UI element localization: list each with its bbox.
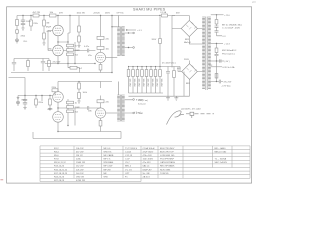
resistor R8	[67, 44, 74, 47]
svg-text:+ C10: + C10	[224, 15, 230, 17]
input jack J1	[16, 39, 19, 42]
capacitor C5 bias	[12, 63, 16, 70]
resistor R24	[35, 99, 38, 105]
diode marks BR1	[186, 22, 196, 29]
svg-text:1M: 1M	[46, 22, 49, 24]
fuse F1	[162, 14, 168, 17]
svg-text:470u 16V: 470u 16V	[143, 155, 153, 157]
resistor R15 bias	[48, 61, 51, 67]
svg-text:NOS 1985: NOS 1985	[160, 169, 171, 171]
ground at bank 2	[174, 96, 178, 100]
wire OPT2 secondary taps	[125, 100, 133, 113]
svg-text:150R 1W: 150R 1W	[76, 162, 86, 164]
resistor R17	[52, 89, 58, 92]
svg-text:10k: 10k	[50, 12, 54, 14]
svg-text:R7,8: R7,8	[54, 159, 59, 161]
wire V2 plate to OPT	[106, 57, 118, 59]
svg-text:320V: 320V	[152, 39, 157, 41]
svg-text:6N2P: 6N2P	[46, 27, 52, 29]
svg-text:47u 450V ( 6x ): 47u 450V ( 6x )	[162, 62, 176, 64]
ground x23	[21, 28, 24, 30]
wire lower feed	[9, 78, 26, 96]
svg-text:2k2: 2k2	[75, 111, 79, 113]
svg-text:4k7 2W: 4k7 2W	[33, 12, 41, 14]
input jack J2	[17, 101, 20, 104]
wire T1 tap group2 top	[211, 43, 223, 45]
wire x79 chain	[78, 16, 80, 46]
svg-text:100u 450: 100u 450	[137, 79, 139, 87]
svg-text:PS ( heaters ): PS ( heaters )	[222, 53, 235, 56]
wire mains to bridge	[172, 16, 189, 68]
resistor R41 dropper	[215, 48, 218, 53]
svg-text:22k: 22k	[106, 38, 110, 40]
capacitor C24 electrolytic	[145, 70, 148, 77]
wire V4 plate to OPT2	[106, 112, 118, 114]
resistor R25	[49, 99, 52, 105]
svg-text:R5,6: R5,6	[54, 155, 59, 157]
svg-text:100u 450: 100u 450	[146, 79, 148, 87]
svg-text:1k: 1k	[75, 46, 78, 48]
terminal upper speaker +	[133, 32, 135, 34]
wire grid bus lower	[18, 96, 53, 102]
diode marks BR2	[187, 65, 197, 72]
capacitor C3 coupling	[87, 49, 95, 53]
svg-text:( 0V ): ( 0V )	[225, 61, 230, 63]
svg-text:100u 450: 100u 450	[160, 79, 162, 87]
triode V3b lower SRPP lower ch	[53, 112, 64, 123]
svg-text:6A4 x4: 6A4 x4	[143, 165, 151, 168]
svg-text:150R: 150R	[75, 107, 80, 109]
wire stage2 lower column	[95, 82, 100, 109]
node dot group2	[216, 43, 217, 44]
wire mid bias row	[14, 59, 49, 72]
wire x25 drop lower	[24, 96, 26, 108]
svg-text:V2a: V2a	[88, 55, 93, 57]
svg-text:TOROID: TOROID	[160, 173, 169, 175]
svg-text:100u 450: 100u 450	[151, 79, 153, 87]
capacitor C10a	[215, 26, 219, 27]
svg-text:R15,16,21,22: R15,16,21,22	[54, 169, 68, 171]
svg-text:35V: 35V	[177, 68, 181, 70]
resistor R27 divider	[78, 36, 81, 42]
ground x79	[77, 46, 80, 48]
svg-text:2k2 2W: 2k2 2W	[76, 166, 84, 168]
resistor R6	[43, 20, 46, 26]
svg-text:R13,14,20: R13,14,20	[54, 166, 65, 168]
resistor R22 cathode lower	[99, 121, 102, 127]
node dot y63	[94, 63, 95, 64]
svg-text:MF CARB: MF CARB	[104, 154, 114, 157]
svg-text:BR -- 6A40: BR -- 6A40	[215, 147, 227, 150]
svg-text:add 100R + 47n zobel: add 100R + 47n zobel	[181, 108, 201, 110]
svg-text:V1..V4: V1..V4	[125, 169, 132, 171]
wire x23 drop	[22, 16, 24, 29]
wire x44 chain	[44, 16, 53, 51]
wire channel bottom return	[33, 132, 121, 139]
svg-text:2k2: 2k2	[75, 54, 79, 56]
transformer T1 core	[206, 17, 207, 91]
wire x36 drop lower	[35, 96, 37, 109]
wire R34 leads	[68, 64, 80, 73]
svg-text:ELECTR TOP: ELECTR TOP	[160, 151, 174, 153]
svg-text:MF 1%: MF 1%	[104, 159, 111, 161]
svg-text:1R0 5W: 1R0 5W	[76, 177, 85, 179]
node dot group2b	[216, 60, 217, 61]
svg-text:MF 0.6W: MF 0.6W	[104, 166, 114, 168]
wire V4 cathode	[58, 118, 121, 138]
border frame	[7, 7, 252, 183]
wire x31 drop	[30, 16, 32, 32]
svg-text:R3,4: R3,4	[54, 151, 59, 153]
svg-text:MELLX 7A2: MELLX 7A2	[215, 150, 227, 153]
resistor R40 dropper	[215, 20, 218, 25]
node junction dots on bus	[22, 15, 160, 16]
svg-text:5k : 8R: 5k : 8R	[143, 173, 150, 175]
transformer OPT2 primary winding	[117, 82, 120, 122]
svg-text:47u 63V: 47u 63V	[143, 162, 152, 164]
resistor R20	[67, 110, 74, 113]
resistor R28 divider lower	[78, 83, 81, 89]
svg-text:4k7 2W: 4k7 2W	[76, 151, 84, 153]
svg-text:( 2 ea ): ( 2 ea )	[135, 112, 142, 114]
svg-text:BR: 4x 1N5408 ( 3A ): BR: 4x 1N5408 ( 3A )	[222, 23, 242, 26]
svg-text:SHAKt MU PIPES: SHAKt MU PIPES	[133, 7, 166, 11]
red registration tick left edge	[0, 179, 3, 180]
resistor R10	[67, 53, 74, 56]
wire mu node lower	[58, 99, 87, 126]
transformer T1 primary winding	[208, 17, 211, 88]
svg-text:C5,7: C5,7	[125, 162, 130, 164]
svg-text:IN L: IN L	[24, 41, 29, 43]
capacitor C1	[21, 20, 25, 21]
terminal lower speaker -	[133, 112, 135, 114]
triode V1b lower SRPP	[53, 45, 64, 56]
resistor R30 bleeder	[173, 71, 176, 78]
wire group2 mid	[211, 60, 224, 62]
svg-text:MF 0.6: MF 0.6	[104, 148, 112, 150]
node dot group1	[216, 14, 217, 15]
svg-text:MF 2W: MF 2W	[104, 169, 112, 171]
svg-text:0.47u: 0.47u	[84, 46, 90, 48]
filter cap bank top bus	[129, 17, 181, 67]
ground x44	[42, 43, 45, 45]
svg-text:220k: 220k	[52, 87, 57, 89]
capacitor C2	[21, 24, 25, 25]
capacitor C23 electrolytic	[141, 70, 144, 77]
svg-text:+B 320: +B 320	[93, 13, 100, 15]
wire group1 ladder	[217, 15, 223, 36]
svg-text:100u 450: 100u 450	[142, 79, 144, 87]
resistor R12 stage2	[97, 46, 104, 49]
svg-text:p.1: p.1	[253, 1, 257, 3]
svg-text:OPT 5k: OPT 5k	[117, 12, 125, 14]
svg-text:1k0 1W: 1k0 1W	[76, 173, 84, 175]
svg-text:220k: 220k	[38, 102, 43, 104]
capacitor C13a	[215, 54, 219, 55]
svg-text:POLYPR MKP: POLYPR MKP	[160, 159, 175, 161]
capacitor C14	[220, 59, 221, 63]
wire R17 leads	[55, 82, 112, 96]
svg-text:6N2P-EV: 6N2P-EV	[143, 169, 153, 171]
svg-text:R1,2: R1,2	[54, 148, 59, 150]
transformer OPT2 secondary winding	[122, 95, 125, 121]
node dot x112	[111, 26, 129, 73]
wire BR2 leads	[178, 61, 202, 97]
resistor R1	[16, 20, 19, 26]
resistor R2 grid stopper	[16, 30, 19, 33]
node dot group3	[216, 81, 217, 82]
svg-text:0 V: 0 V	[223, 36, 227, 38]
wire x79 chain lower	[78, 82, 80, 102]
ground x25 lower	[23, 107, 26, 109]
svg-text:V2b: V2b	[88, 111, 93, 113]
handwritten signature scribble	[167, 111, 215, 125]
resistor R34 tail	[70, 66, 77, 69]
triode V1a upper SRPP	[53, 25, 64, 36]
node dots V3	[57, 107, 68, 132]
transformer OPT1 primary winding	[117, 16, 120, 56]
capacitor C27 electrolytic	[159, 70, 162, 77]
svg-text:100u 450: 100u 450	[155, 79, 157, 87]
svg-text:F1 2A: F1 2A	[161, 11, 167, 14]
svg-text:47uF 350V: 47uF 350V	[143, 151, 154, 153]
bridge rectifier BR1	[181, 20, 197, 36]
svg-text:22k 2W: 22k 2W	[76, 169, 84, 171]
wire group3	[211, 81, 223, 83]
filter cap bank bottom bus	[129, 93, 190, 96]
capacitor C26 electrolytic	[154, 70, 157, 77]
svg-text:CATH BYPASS: CATH BYPASS	[160, 161, 176, 164]
svg-text:220k: 220k	[33, 23, 38, 25]
terminal lower speaker +	[133, 99, 135, 101]
svg-text:- 0.7V bias: - 0.7V bias	[221, 86, 231, 88]
node dots lower grid	[24, 95, 42, 96]
resistor R7	[43, 33, 46, 39]
resistor R18	[67, 101, 74, 104]
wire B+ top bus	[17, 15, 175, 17]
svg-text:BR1,2: BR1,2	[125, 166, 132, 168]
svg-text:OPT: OPT	[125, 173, 130, 175]
ground x79 lower	[77, 101, 80, 103]
capacitor C21 electrolytic	[132, 70, 135, 77]
node dots lower drops	[35, 95, 50, 96]
transformer OPT1 core	[120, 26, 123, 55]
resistor R29 divider lower	[78, 93, 81, 99]
svg-text:R9,10,11,12: R9,10,11,12	[54, 162, 67, 164]
svg-text:63V: 63V	[176, 13, 180, 15]
svg-text:WW 5%: WW 5%	[104, 151, 112, 153]
ground at bank	[166, 96, 170, 100]
wire V1 anode/cathode column	[57, 16, 59, 64]
triode V2 output upper	[95, 52, 105, 62]
svg-text:10k 1W: 10k 1W	[76, 148, 84, 150]
svg-text:C1,F: C1,F	[125, 159, 130, 161]
transformer OPT2 core	[120, 95, 123, 122]
resistor R19	[67, 106, 74, 109]
svg-text:100k 1W: 100k 1W	[77, 12, 85, 14]
svg-text:150R: 150R	[75, 50, 80, 52]
wire heater run	[127, 29, 137, 31]
resistor R4 on bus	[50, 14, 57, 17]
capacitor C6 bias	[41, 62, 45, 69]
ground return y63	[45, 63, 95, 65]
capacitor C28	[166, 67, 170, 97]
svg-text:V1b: V1b	[48, 49, 53, 51]
svg-text:100u 450: 100u 450	[133, 79, 135, 87]
svg-text:47u 25V: 47u 25V	[224, 82, 232, 84]
svg-text:+ C13: + C13	[224, 44, 230, 46]
resistor R26 divider	[78, 26, 81, 32]
resistor R11 stage2	[97, 36, 104, 39]
svg-text:6N2P: 6N2P	[48, 109, 54, 111]
resistor R9	[67, 49, 74, 52]
svg-text:C12,13: C12,13	[125, 155, 133, 157]
svg-text:+ 0.1: + 0.1	[137, 30, 143, 32]
capacitor C25 electrolytic	[150, 70, 153, 77]
transformer T1 secondary winding	[202, 17, 205, 88]
svg-text:100n 630V: 100n 630V	[143, 159, 154, 161]
svg-text:C: 2x 100uF , 450V: C: 2x 100uF , 450V	[222, 28, 241, 30]
capacitor C4 coupling lower	[87, 106, 95, 110]
svg-text:100n: 100n	[26, 21, 31, 23]
resistor R21 stage2 lower	[97, 100, 104, 103]
terminal upper speaker -	[133, 47, 135, 49]
svg-text:LOW ESR 105: LOW ESR 105	[160, 155, 175, 157]
svg-text:470R 2W: 470R 2W	[76, 180, 86, 182]
capacitor C20 electrolytic	[127, 70, 130, 77]
wire mu output node	[58, 16, 87, 64]
svg-text:1M 1/2: 1M 1/2	[76, 155, 83, 157]
resistor R3 on bus	[33, 14, 39, 17]
wire OPT1 secondary taps	[125, 33, 133, 48]
resistor R14 bias	[27, 61, 30, 67]
wire J2	[17, 96, 19, 107]
svg-text:6N2 300mA DC: 6N2 300mA DC	[222, 49, 237, 52]
transformer OPT1 secondary winding	[122, 27, 125, 56]
svg-text:T1,T2,R,B,S: T1,T2,R,B,S	[125, 148, 138, 150]
capacitor C8	[23, 103, 27, 104]
parts table grid	[40, 146, 250, 182]
svg-text:22k: 22k	[106, 102, 110, 104]
resistor R42 dropper	[215, 74, 218, 79]
node dot heater	[126, 29, 127, 30]
wire stage2 column	[100, 16, 102, 53]
svg-text:ELECTR 450V: ELECTR 450V	[160, 148, 175, 150]
wire x50 drop lower	[49, 96, 51, 109]
svg-text:10k: 10k	[106, 48, 110, 50]
svg-text:230V: 230V	[184, 59, 189, 61]
svg-text:100k: 100k	[83, 92, 87, 94]
triode V3a upper SRPP lower ch	[53, 92, 64, 103]
svg-text:2A SLO: 2A SLO	[143, 176, 151, 179]
capacitor C22 electrolytic	[136, 70, 139, 77]
wire V2 cathode	[100, 63, 102, 73]
svg-text:C11,B: C11,B	[125, 151, 131, 153]
switch S1 on feed	[159, 39, 162, 44]
svg-text:6.3V 3x 0.5A: 6.3V 3x 0.5A	[223, 66, 236, 69]
svg-text:R24,25,26: R24,25,26	[54, 177, 65, 179]
capacitor C7	[23, 99, 27, 100]
wire BR1 to transformer	[189, 29, 202, 45]
ground x50 lower	[48, 108, 51, 110]
svg-text:hum pot: hum pot	[138, 102, 146, 105]
wire V3 column	[57, 102, 59, 131]
bridge rectifier BR2	[182, 64, 198, 80]
svg-text:265V: 265V	[105, 12, 110, 14]
svg-text:1k2: 1k2	[79, 68, 83, 70]
svg-text:R27,28,29: R27,28,29	[54, 180, 65, 182]
svg-text:T1 -- 300VA: T1 -- 300VA	[215, 158, 227, 161]
node dots bank	[128, 66, 161, 67]
wire x17 drop	[16, 16, 18, 44]
node dots V1	[57, 41, 75, 64]
wire bank right drops	[180, 67, 184, 97]
svg-text:C10A 100uF: C10A 100uF	[143, 147, 156, 150]
svg-text:BR2: BR2	[186, 83, 191, 85]
svg-text:100u 450: 100u 450	[128, 79, 130, 87]
svg-text:SEC 2x300V: SEC 2x300V	[215, 162, 228, 164]
wire B+ feed x112	[112, 16, 117, 73]
svg-text:1R0 (2 ea): 1R0 (2 ea)	[138, 100, 148, 102]
svg-text:47u 63V: 47u 63V	[53, 62, 61, 64]
common rail y72	[11, 72, 112, 74]
svg-text:470k: 470k	[46, 31, 51, 33]
node dot x79	[78, 81, 79, 82]
svg-text:R17,18,19,23: R17,18,19,23	[54, 173, 68, 175]
resistor R5	[30, 20, 33, 26]
svg-text:47R: 47R	[59, 13, 63, 15]
wire group2 ladder	[216, 44, 218, 82]
wire group2 low	[211, 66, 222, 68]
capacitor C10b	[215, 31, 219, 32]
svg-text:WW BIAS: WW BIAS	[104, 161, 114, 164]
wire T1 tap group1 top	[211, 14, 224, 16]
parts table text	[54, 147, 228, 182]
triode V4 output lower	[95, 108, 105, 118]
svg-text:1k: 1k	[75, 103, 78, 105]
svg-text:RECTIF BANK: RECTIF BANK	[160, 165, 175, 168]
resistor R13 cathode	[99, 65, 102, 71]
svg-text:470k: 470k	[21, 36, 26, 38]
capacitor C15	[219, 80, 220, 84]
